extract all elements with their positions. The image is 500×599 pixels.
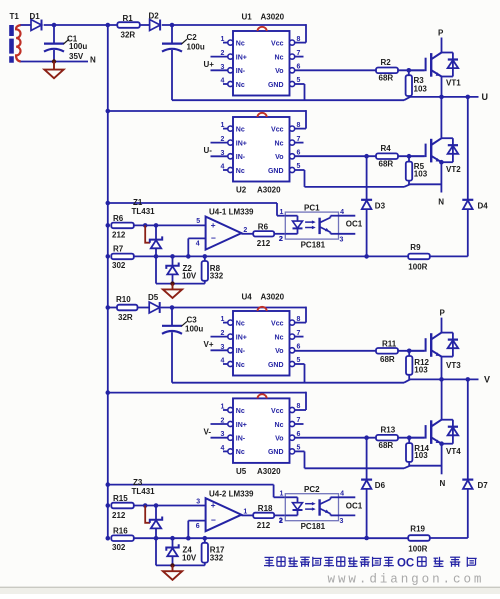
- svg-text:Nc: Nc: [236, 449, 245, 456]
- watermark www.diangon.com: [328, 572, 485, 586]
- svg-text:Vcc: Vcc: [271, 320, 284, 327]
- resistor R19 100R: [408, 525, 430, 554]
- node P supply stage1: [438, 29, 444, 53]
- resistor R5 103: [406, 156, 428, 185]
- svg-text:212: 212: [112, 231, 126, 240]
- svg-text:R7: R7: [113, 245, 124, 254]
- svg-text:IN+: IN+: [236, 140, 247, 147]
- transistor VT3 IGBT: [409, 333, 461, 370]
- wire T1 bottom to N: [21, 61, 89, 63]
- wire U2 Vo to R4: [295, 155, 376, 157]
- wire VT1 emitter to U rail: [439, 53, 444, 100]
- node R14 top junction: [407, 435, 412, 440]
- svg-text:P: P: [440, 309, 446, 318]
- capacitor C2 100u: [162, 25, 205, 100]
- svg-text:32R: 32R: [121, 30, 136, 39]
- svg-text:212: 212: [112, 511, 126, 520]
- wire U4 GND line to V emitter rail: [172, 364, 410, 383]
- svg-text:A3020: A3020: [261, 293, 285, 302]
- svg-text:IN+: IN+: [236, 334, 247, 341]
- ground below Z4: [163, 565, 182, 579]
- node R3 top junction: [407, 68, 412, 73]
- zener Z4 10V: [154, 536, 205, 568]
- zener Z2 10V: [154, 254, 205, 286]
- svg-text:3: 3: [221, 431, 225, 438]
- wire supply to PC1 pin1: [106, 201, 286, 216]
- svg-text:103: 103: [414, 365, 428, 374]
- resistor R15 212: [106, 494, 134, 520]
- svg-text:3: 3: [340, 236, 344, 243]
- svg-text:1: 1: [221, 36, 225, 43]
- svg-text:+: +: [211, 220, 216, 230]
- svg-text:Vo: Vo: [275, 154, 283, 161]
- node U output terminal: [482, 92, 489, 102]
- resistor R4 68R: [376, 144, 398, 169]
- svg-text:U: U: [482, 92, 489, 102]
- node V- input label: [204, 427, 212, 436]
- svg-text:Nc: Nc: [275, 422, 284, 429]
- svg-text:Nc: Nc: [236, 320, 245, 327]
- title text: 欧瑞小功率机型的驱动与OC报警电路 (drawn): [264, 557, 477, 570]
- svg-text:Vcc: Vcc: [271, 408, 284, 415]
- svg-text:U4: U4: [242, 293, 253, 302]
- wire VT4 collector to V rail: [441, 379, 443, 419]
- ground below Z2: [163, 284, 182, 298]
- svg-text:Z3: Z3: [133, 478, 143, 487]
- svg-text:332: 332: [210, 272, 224, 281]
- diode D5: [148, 293, 160, 313]
- resistor R17 332: [202, 536, 225, 566]
- wire supply to PC2 pin1: [106, 482, 286, 497]
- svg-text:2: 2: [221, 330, 225, 337]
- svg-text:100u: 100u: [185, 325, 203, 334]
- svg-text:Vcc: Vcc: [271, 40, 284, 47]
- svg-text:VT1: VT1: [446, 79, 461, 88]
- wire R2 to VT1 gate: [398, 69, 425, 71]
- svg-text:R10: R10: [116, 295, 131, 304]
- capacitor C1 100u 35V: [44, 25, 87, 62]
- node R5 top junction: [407, 154, 412, 159]
- op-amp IC U1 A3020: [211, 13, 307, 96]
- transistor VT1 IGBT: [409, 53, 461, 88]
- transistor VT4 IGBT: [409, 420, 461, 456]
- resistor R3 103: [406, 70, 428, 97]
- wire lower rail R10 row: [106, 305, 307, 322]
- svg-text:TL431: TL431: [132, 207, 156, 216]
- wire R4 to VT2 gate: [398, 155, 425, 157]
- resistor R11 68R: [376, 339, 398, 364]
- svg-text:Nc: Nc: [236, 82, 245, 89]
- optocoupler PC1 PC181: [279, 203, 363, 249]
- svg-text:4: 4: [221, 358, 225, 365]
- resistor R10 32R: [116, 295, 138, 322]
- svg-text:2: 2: [279, 518, 283, 525]
- svg-text:4: 4: [221, 164, 225, 171]
- resistor R18 212 comparator output: [241, 504, 285, 530]
- svg-text:D5: D5: [148, 293, 159, 302]
- resistor R14 103: [406, 438, 430, 466]
- svg-text:PC2: PC2: [304, 485, 320, 494]
- svg-text:2: 2: [221, 50, 225, 57]
- svg-text:1: 1: [280, 491, 284, 498]
- comparator U4-2 LM339: [196, 489, 254, 531]
- diode D4: [462, 95, 488, 257]
- wire U4 Vo to R11: [295, 350, 376, 352]
- svg-text:212: 212: [257, 521, 271, 530]
- svg-text:68R: 68R: [379, 160, 394, 169]
- svg-text:GND: GND: [268, 362, 284, 369]
- svg-text:103: 103: [414, 85, 428, 94]
- diode D7: [462, 377, 488, 538]
- svg-text:PC1: PC1: [304, 203, 320, 212]
- svg-text:T1: T1: [10, 12, 20, 21]
- svg-text:N: N: [440, 479, 446, 488]
- svg-text:Nc: Nc: [275, 140, 284, 147]
- svg-text:D3: D3: [375, 201, 386, 210]
- svg-text:100R: 100R: [408, 544, 427, 553]
- svg-text:U1: U1: [242, 13, 253, 22]
- wire U2 GND line: [305, 170, 411, 187]
- resistor R8 332: [202, 254, 224, 284]
- wire VT2 emitter to N stub: [439, 160, 444, 193]
- resistor R6 212: [106, 214, 134, 240]
- diode D6: [361, 438, 385, 541]
- wire comparator inverting input: [186, 238, 206, 258]
- svg-text:6: 6: [196, 523, 200, 530]
- svg-text:3: 3: [340, 518, 344, 525]
- wire U1 GND line to emitter rail: [172, 84, 410, 100]
- svg-text:Nc: Nc: [236, 126, 245, 133]
- wire R15 to comparator noninverting input: [134, 505, 206, 507]
- svg-text:4: 4: [221, 445, 225, 452]
- node N terminal top: [90, 55, 96, 64]
- svg-text:D7: D7: [478, 481, 489, 490]
- svg-text:U4-2 LM339: U4-2 LM339: [209, 489, 254, 498]
- resistor R9 100R: [408, 243, 430, 271]
- diode D2: [149, 12, 161, 31]
- op-amp IC U4 A3020: [211, 293, 307, 376]
- node C3 top junction: [170, 305, 175, 310]
- transformer T1: [10, 12, 21, 63]
- svg-text:4: 4: [196, 241, 200, 248]
- resistor R7 302: [106, 245, 134, 271]
- svg-text:68R: 68R: [379, 74, 394, 83]
- svg-text:Nc: Nc: [275, 334, 284, 341]
- node N terminal stage2: [438, 197, 444, 206]
- wire U5 GND line: [305, 451, 411, 468]
- svg-text:R4: R4: [381, 144, 392, 153]
- svg-text:100R: 100R: [408, 262, 427, 271]
- op-amp IC U5 A3020: [211, 394, 307, 476]
- svg-text:U+: U+: [204, 60, 215, 69]
- svg-text:D4: D4: [478, 201, 489, 210]
- svg-text:Nc: Nc: [275, 54, 284, 61]
- svg-text:GND: GND: [268, 449, 284, 456]
- svg-text:R6: R6: [113, 214, 124, 223]
- svg-text:PC181: PC181: [301, 522, 326, 531]
- svg-text:R1: R1: [123, 14, 134, 23]
- node D6 branch junction: [364, 435, 369, 440]
- node C2 top junction: [170, 23, 175, 28]
- svg-text:VT4: VT4: [446, 447, 461, 456]
- svg-text:OC1: OC1: [346, 220, 363, 229]
- svg-text:4: 4: [221, 78, 225, 85]
- svg-text:P: P: [438, 29, 444, 38]
- svg-text:R3: R3: [414, 76, 425, 85]
- shunt regulator Z1 TL431: [132, 198, 163, 257]
- svg-text:U5: U5: [236, 467, 247, 476]
- svg-text:Nc: Nc: [236, 362, 245, 369]
- diode D3: [361, 156, 385, 258]
- svg-text:1: 1: [221, 316, 225, 323]
- wire V-phase emitter rail: [410, 378, 479, 380]
- svg-text:212: 212: [257, 239, 271, 248]
- node R12 top junction: [407, 349, 412, 354]
- svg-text:+: +: [211, 500, 216, 510]
- wire alarm rail: [134, 537, 408, 539]
- svg-text:U2: U2: [236, 186, 247, 195]
- node U- input label: [204, 146, 213, 155]
- svg-text:TL431: TL431: [132, 487, 156, 496]
- wire R9 to D4 corner: [430, 255, 468, 257]
- comparator U4-1 LM339: [196, 208, 254, 250]
- optocoupler PC2 PC181: [279, 485, 363, 531]
- svg-text:R6: R6: [258, 223, 269, 232]
- wire U5 Vcc rail: [106, 390, 307, 410]
- svg-text:Nc: Nc: [236, 168, 245, 175]
- node V output terminal: [484, 374, 490, 384]
- svg-text:R19: R19: [410, 525, 425, 534]
- svg-text:−: −: [211, 515, 216, 525]
- resistor R16 302: [106, 527, 134, 553]
- svg-text:Vcc: Vcc: [271, 126, 284, 133]
- svg-text:1: 1: [221, 122, 225, 129]
- svg-text:68R: 68R: [379, 441, 394, 450]
- svg-text:R9: R9: [410, 243, 421, 252]
- svg-text:2: 2: [221, 418, 225, 425]
- svg-text:www.diangon.com: www.diangon.com: [328, 572, 485, 586]
- ground at C1: [44, 59, 63, 78]
- node N terminal stage4: [440, 479, 446, 488]
- node main bus top junction: [106, 23, 111, 28]
- svg-text:35V: 35V: [69, 52, 84, 61]
- node V+ input label: [204, 340, 214, 349]
- svg-text:302: 302: [112, 261, 126, 270]
- node C1 top junction: [52, 23, 57, 28]
- svg-text:5: 5: [196, 218, 200, 225]
- node D3 branch junction: [364, 154, 369, 159]
- wire left supply bus: [107, 25, 109, 538]
- wire comparator inverting input: [186, 521, 206, 541]
- node U+ input label: [204, 60, 215, 69]
- svg-text:332: 332: [210, 554, 224, 563]
- svg-text:3: 3: [221, 150, 225, 157]
- svg-text:10V: 10V: [182, 272, 197, 281]
- svg-text:A3020: A3020: [261, 13, 285, 22]
- svg-text:3: 3: [221, 64, 225, 71]
- wire R11 to VT3 gate: [398, 350, 425, 352]
- wire VT2 collector to U rail: [440, 97, 442, 138]
- svg-text:1: 1: [280, 209, 284, 216]
- op-amp IC U2 A3020: [211, 113, 307, 195]
- capacitor C3 100u: [162, 308, 203, 383]
- svg-text:V: V: [484, 374, 490, 384]
- svg-text:VT2: VT2: [446, 165, 461, 174]
- svg-text:D2: D2: [149, 12, 160, 21]
- svg-text:IN+: IN+: [236, 422, 247, 429]
- svg-text:R2: R2: [381, 58, 392, 67]
- svg-text:N: N: [90, 55, 96, 64]
- svg-text:100u: 100u: [187, 42, 205, 51]
- transistor VT2 IGBT: [409, 138, 461, 174]
- wire U-phase emitter rail: [410, 96, 479, 98]
- svg-text:PC181: PC181: [301, 240, 326, 249]
- svg-text:IN-: IN-: [236, 68, 246, 75]
- wire VT4 emitter rail: [410, 465, 442, 467]
- svg-text:OC1: OC1: [346, 501, 363, 510]
- svg-text:1: 1: [243, 509, 247, 516]
- svg-text:68R: 68R: [380, 355, 395, 364]
- svg-text:103: 103: [414, 451, 428, 460]
- svg-text:6: 6: [297, 344, 301, 351]
- wire VT3 emitter to V rail: [439, 357, 444, 382]
- svg-text:−: −: [211, 233, 216, 243]
- svg-text:R13: R13: [381, 425, 396, 434]
- wire R19 to D7 corner: [430, 537, 468, 539]
- resistor R6 212 comparator output: [241, 223, 285, 249]
- node P supply stage3: [440, 309, 446, 333]
- svg-text:Nc: Nc: [236, 40, 245, 47]
- svg-text:1: 1: [221, 404, 225, 411]
- svg-text:3: 3: [221, 344, 225, 351]
- wire U5 Vo to R13: [295, 437, 376, 439]
- wire U2 Vcc rail: [106, 109, 307, 129]
- page bottom border strip: [0, 587, 500, 594]
- wire R6 to comparator noninverting input: [134, 224, 206, 226]
- svg-text:R16: R16: [113, 527, 128, 536]
- svg-text:C2: C2: [187, 33, 198, 42]
- svg-text:10V: 10V: [182, 554, 197, 563]
- svg-text:A3020: A3020: [257, 186, 281, 195]
- svg-text:V+: V+: [204, 340, 214, 349]
- wire alarm rail: [134, 255, 408, 257]
- svg-text:V-: V-: [204, 427, 212, 436]
- svg-text:U4-1 LM339: U4-1 LM339: [209, 208, 254, 217]
- svg-text:R15: R15: [113, 494, 128, 503]
- svg-text:100u: 100u: [69, 42, 87, 51]
- resistor R13 68R: [376, 425, 398, 450]
- svg-text:Z1: Z1: [133, 198, 143, 207]
- wire VT2 emitter rail: [410, 183, 441, 185]
- svg-text:2: 2: [279, 236, 283, 243]
- svg-text:Vo: Vo: [275, 436, 283, 443]
- svg-text:IN+: IN+: [236, 54, 247, 61]
- wire VT4 emitter to N stub: [439, 441, 444, 474]
- svg-text:103: 103: [414, 170, 428, 179]
- diode D1: [30, 12, 42, 30]
- svg-text:302: 302: [112, 543, 126, 552]
- svg-text:3: 3: [196, 498, 200, 505]
- resistor R12 103: [406, 351, 430, 380]
- svg-text:R11: R11: [382, 339, 397, 348]
- wire R13 to VT4 gate: [398, 437, 425, 439]
- svg-text:GND: GND: [268, 168, 284, 175]
- svg-text:OC: OC: [397, 558, 414, 570]
- svg-text:IN-: IN-: [236, 436, 246, 443]
- svg-text:2: 2: [221, 136, 225, 143]
- svg-text:U-: U-: [204, 146, 213, 155]
- svg-text:VT3: VT3: [446, 361, 461, 370]
- svg-text:IN-: IN-: [236, 348, 246, 355]
- svg-text:D1: D1: [30, 12, 41, 21]
- svg-text:Nc: Nc: [236, 408, 245, 415]
- svg-text:N: N: [438, 197, 444, 206]
- svg-text:2: 2: [243, 227, 247, 234]
- svg-text:A3020: A3020: [257, 467, 281, 476]
- svg-text:R18: R18: [258, 504, 273, 513]
- wire U1 Vo to R2: [295, 69, 376, 71]
- svg-text:IN-: IN-: [236, 154, 246, 161]
- svg-text:C3: C3: [187, 316, 198, 325]
- resistor R2 68R: [376, 58, 398, 83]
- wire top rail from T1 to U1 Vcc: [21, 24, 307, 42]
- svg-text:32R: 32R: [118, 313, 133, 322]
- shunt regulator Z3 TL431: [132, 478, 163, 538]
- svg-text:Vo: Vo: [275, 348, 283, 355]
- svg-text:D6: D6: [375, 481, 386, 490]
- svg-text:Vo: Vo: [275, 68, 283, 75]
- svg-text:GND: GND: [268, 82, 284, 89]
- resistor R1 32R: [117, 14, 140, 39]
